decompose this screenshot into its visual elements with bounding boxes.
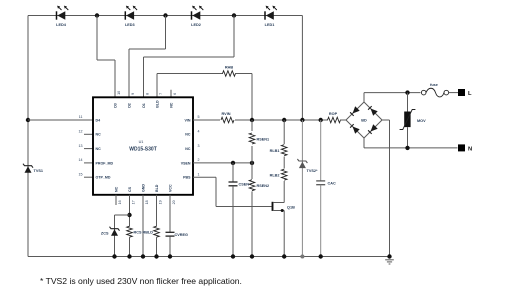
wire IC pin20 VCC down — [169, 195, 171, 232]
svg-text:MOV: MOV — [417, 119, 426, 123]
node RSEN top junction — [250, 118, 254, 122]
wire IC pin19 BLD down — [156, 195, 158, 227]
wire CSEN to bus — [232, 186, 234, 257]
node MOV bottom junction — [405, 146, 409, 150]
wire RSEN1 to VSEN row — [251, 146, 253, 163]
wire TVS2 column — [301, 120, 303, 257]
svg-text:16: 16 — [118, 200, 122, 204]
svg-text:RCS: RCS — [134, 231, 142, 235]
wire RHB to VIN rail — [235, 74, 252, 121]
svg-text:D4: D4 — [96, 118, 101, 122]
wire IC pin13 NC stub — [84, 148, 93, 150]
svg-text:GND: GND — [142, 184, 146, 192]
wire RLB1 top — [283, 120, 285, 144]
TVS diode TVS2 — [297, 159, 318, 173]
svg-text:ROP: ROP — [329, 112, 338, 116]
resistor RCS — [127, 226, 142, 237]
resistor RHB — [223, 66, 236, 77]
wire bridge top to L line — [364, 93, 421, 102]
svg-text:D3: D3 — [114, 103, 118, 108]
svg-text:NC: NC — [170, 102, 174, 108]
svg-text:4: 4 — [198, 130, 200, 134]
svg-text:* TVS2 is only used 230V non f: * TVS2 is only used 230V non flicker fre… — [40, 276, 242, 286]
wire RCS to bus — [129, 237, 131, 256]
svg-text:18: 18 — [145, 200, 149, 204]
wire bottom ground bus — [28, 256, 390, 258]
wire LED1 anode to VIN rail (vertical x=302) — [301, 16, 303, 121]
resistor RSEN2 — [249, 180, 269, 191]
svg-text:BLD: BLD — [156, 100, 160, 108]
wire pin17 to ZCS — [115, 215, 130, 257]
resistor RBLD — [142, 226, 159, 237]
svg-text:PBS: PBS — [183, 176, 191, 180]
wire IC pin12 NC stub — [84, 133, 93, 135]
svg-text:BD: BD — [361, 118, 367, 122]
svg-text:LED1: LED1 — [265, 23, 275, 27]
wire RLB2 to Q1B drain — [274, 181, 285, 203]
wire fuse to L terminal — [449, 92, 458, 94]
TVS diode TVS1 — [23, 164, 43, 173]
wire CAC column top — [320, 120, 322, 181]
svg-text:RLB1: RLB1 — [270, 149, 280, 153]
svg-text:13: 13 — [79, 144, 83, 148]
node LED anode / TVS2 junction — [300, 118, 304, 122]
svg-text:NC: NC — [96, 147, 102, 151]
svg-text:5: 5 — [198, 115, 200, 119]
svg-text:VCC: VCC — [169, 184, 173, 192]
wire RSEN1 top — [251, 120, 253, 131]
svg-text:LED4: LED4 — [56, 23, 67, 27]
svg-text:RSEN2: RSEN2 — [257, 184, 270, 188]
wire bridge bottom to N line — [364, 138, 458, 148]
svg-text:N: N — [468, 147, 472, 153]
svg-text:NC: NC — [185, 133, 191, 137]
node TVS2 bus dot — [300, 255, 304, 259]
svg-text:WD15-S30T: WD15-S30T — [129, 147, 157, 153]
svg-text:20: 20 — [172, 200, 176, 204]
node J3 (LED2/LED1 junction) — [232, 13, 236, 17]
node J2 (LED3/LED2 junction) — [163, 13, 167, 17]
svg-text:TVS2*: TVS2* — [307, 169, 318, 173]
wire CVREG to bus — [169, 236, 171, 256]
svg-text:6: 6 — [173, 93, 177, 95]
svg-text:17: 17 — [132, 200, 136, 204]
wire CAC column bottom — [320, 185, 322, 257]
svg-text:D2: D2 — [128, 103, 132, 108]
wire IC pin14 PROF_MD stub — [84, 162, 93, 164]
node J1 (LED4/LED3 junction) — [95, 13, 99, 17]
svg-text:ZCS: ZCS — [101, 232, 109, 236]
varistor MOV — [400, 110, 427, 130]
svg-text:10: 10 — [117, 91, 121, 95]
node pin17/ZCS junction — [127, 213, 131, 217]
ground symbol — [385, 260, 394, 264]
svg-text:15: 15 — [79, 172, 83, 176]
wire RBLD to bus — [156, 237, 158, 256]
svg-text:Q1B: Q1B — [287, 206, 295, 210]
svg-text:NC: NC — [115, 186, 119, 192]
svg-text:BLD: BLD — [155, 184, 159, 192]
bridge rectifier BD frame — [346, 102, 382, 138]
IC bottom pin labels 16-20 — [115, 184, 177, 205]
svg-text:OTP_MD: OTP_MD — [96, 176, 111, 180]
capacitor CVREG — [166, 232, 189, 237]
IC right pin labels 1-5 — [181, 115, 200, 179]
node CSEN bus dot — [231, 254, 235, 258]
svg-text:RBLD: RBLD — [142, 231, 153, 235]
svg-text:3: 3 — [198, 144, 200, 148]
resistor RVIN — [221, 112, 234, 123]
wire ROP to bridge — [340, 119, 346, 121]
wire RLB1 to RLB2 — [283, 157, 285, 169]
svg-text:12: 12 — [79, 130, 83, 134]
svg-text:NC: NC — [96, 133, 102, 137]
wire IC pin2 VSEN row — [193, 162, 252, 164]
svg-text:LED2: LED2 — [191, 23, 201, 27]
node CAC bus dot — [319, 254, 323, 258]
wire IC pin18 GND to bus — [142, 195, 144, 257]
svg-text:TVS1: TVS1 — [34, 169, 44, 173]
resistor ROP — [328, 112, 341, 123]
wire IC pin7 BLD up — [156, 74, 158, 98]
svg-text:RHB: RHB — [225, 66, 233, 70]
svg-text:19: 19 — [159, 200, 163, 204]
diode BD upper-left (top to left) — [350, 106, 360, 116]
zener diode ZCS — [101, 227, 120, 236]
svg-text:CS: CS — [128, 186, 132, 192]
svg-text:9: 9 — [131, 93, 135, 95]
svg-text:CAC: CAC — [328, 181, 336, 185]
wire RVIN to ROP — [235, 119, 328, 121]
svg-text:VSEN: VSEN — [181, 161, 191, 165]
node MOV top junction — [405, 90, 409, 94]
svg-text:RVIN: RVIN — [221, 112, 230, 116]
op-amp U1 WD15-S30T LED driver IC body — [93, 97, 193, 195]
wire VSEN row to RSEN2 — [251, 163, 253, 179]
IC top pin labels 6-10 — [114, 91, 178, 108]
svg-text:CSEN: CSEN — [239, 183, 250, 187]
svg-text:NC: NC — [185, 147, 191, 151]
svg-text:VIN: VIN — [185, 118, 191, 122]
svg-text:U1: U1 — [139, 140, 144, 144]
caption note — [40, 276, 242, 286]
wire J3 to IC pin 8 D1 — [144, 16, 235, 98]
node CSEN top — [231, 161, 235, 165]
diode BD lower-left (bottom to left) — [350, 124, 360, 134]
wire top LED string rail — [28, 15, 302, 17]
wire IC pin1 PBS to gate — [193, 177, 272, 206]
bus junction dots under IC — [112, 254, 172, 258]
svg-text:8: 8 — [146, 93, 150, 95]
svg-text:RLB2: RLB2 — [270, 174, 280, 178]
svg-text:1: 1 — [198, 172, 200, 176]
resistor RLB1 — [270, 145, 287, 156]
wire CSEN top — [232, 163, 234, 182]
wire MOV column top — [407, 93, 409, 112]
node RSEN2 bus dot — [250, 254, 254, 258]
wire left rail (D4/TVS1 net) — [27, 16, 29, 257]
svg-text:PROF_MD: PROF_MD — [96, 161, 114, 165]
diode BD upper-right (right to top) — [368, 106, 378, 116]
LED D4 (LED4) — [56, 6, 68, 27]
node RLB top junction — [282, 118, 286, 122]
diode BD lower-right (right to bottom) — [368, 124, 378, 134]
svg-text:14: 14 — [79, 158, 83, 162]
node RSEN mid — [250, 161, 254, 165]
wire IC pin15 OTP_MD stub — [84, 176, 93, 178]
wire bridge DC- to ground bus — [382, 120, 390, 257]
IC left pin labels 11-15 — [79, 115, 114, 179]
svg-text:LED3: LED3 — [125, 23, 135, 27]
node Q1B source bus dot — [282, 254, 286, 258]
svg-text:RSEN1: RSEN1 — [257, 138, 270, 142]
wire BLD to RHB — [157, 73, 223, 75]
capacitor CAC — [316, 181, 336, 185]
wire IC pin16 NC stub — [115, 195, 117, 205]
capacitor CSEN — [229, 182, 250, 187]
svg-text:D1: D1 — [142, 103, 146, 108]
wire J2 to IC pin 9 D2 — [129, 16, 166, 98]
wire J1 to IC pin 10 D3 — [97, 16, 115, 98]
terminal N — [458, 144, 472, 152]
wire IC pin5 VIN to RVIN — [193, 119, 220, 121]
node ground bus end dot — [387, 254, 391, 258]
svg-text:L: L — [468, 91, 472, 97]
LED D3 (LED3) — [125, 6, 137, 27]
node CAC junction — [319, 118, 323, 122]
wire RSEN2 to bus — [251, 191, 253, 256]
LED D1 (LED1) — [265, 6, 277, 27]
resistor RLB2 — [270, 169, 287, 180]
svg-text:2: 2 — [198, 158, 200, 162]
svg-text:CVREG: CVREG — [175, 233, 189, 237]
fuse F1 — [421, 83, 448, 97]
svg-text:fuse: fuse — [430, 83, 438, 87]
resistor RSEN1 — [249, 133, 269, 144]
terminal L — [458, 89, 472, 97]
wire IC pin6 NC stub — [170, 90, 172, 98]
svg-text:11: 11 — [79, 115, 83, 119]
wire MOV column bottom — [407, 127, 409, 148]
transistor Q1B (NMOS) — [273, 202, 296, 212]
LED D2 (LED2) — [191, 6, 203, 27]
wire D4 net to IC pin 11 — [28, 119, 93, 121]
wire Q1B source to bus — [283, 211, 285, 257]
wire IC pin17 CS down — [129, 195, 131, 227]
svg-text:7: 7 — [159, 93, 163, 95]
node D4 net on left rail — [26, 118, 30, 122]
